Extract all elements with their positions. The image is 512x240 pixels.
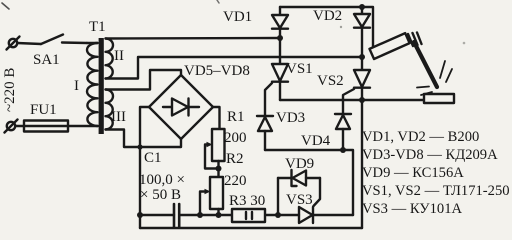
wire: R1 wiper (rheostat tap) [205,145,219,169]
wire: R2 wiper to bottom wire [200,192,207,216]
wire: VD1 cathode down to VS1 anode [279,29,281,64]
terminal X1 (top input clamp) [9,39,17,47]
wire: VD2 cathode down to VS2 anode [361,28,363,70]
wire: winding III bottom to y147 line [106,130,182,148]
wire: VD2 anode lead [361,7,363,14]
svg-text:R2: R2 [226,151,244,167]
wire: R2 bottom lead [217,209,219,215]
node: left drop / y147 junction [137,144,142,149]
node: rail / VS2 cathode junction [359,97,365,103]
svg-text:VS2: VS2 [317,73,344,89]
wire: VS1 gate lead [265,83,272,116]
node: VD9/VS3/R3 junction [275,212,281,218]
svg-text:VD9 — КС156А: VD9 — КС156А [362,165,464,181]
wire: VD4 anode lead [342,129,344,150]
svg-text:VD3: VD3 [276,110,305,126]
node: R2 bottom junction [216,212,222,218]
wire: VD9 cathode down to R3 node [277,178,279,215]
resistor R2 (variable) [210,177,223,209]
svg-text:FU1: FU1 [30,102,57,118]
svg-text:II: II [114,48,124,64]
transformer winding I (primary) [87,43,98,126]
wire: VD9 anode down to VS3 gate [314,178,321,206]
svg-text:VS1, VS2 — ТЛ171-250: VS1, VS2 — ТЛ171-250 [362,183,510,199]
svg-text:× 50 В: × 50 В [140,187,181,203]
transformer T1 core [99,38,104,134]
wire: bridge left corner down the common left drop [140,107,149,228]
scan speck top edge [217,0,219,3]
electrode [414,42,437,87]
wire: VS1 cathode to lower rail [279,82,281,100]
scan speck mid top [340,26,342,28]
svg-text:VS3 — КУ101А: VS3 — КУ101А [362,201,463,217]
svg-text:VD1, VD2 — В200: VD1, VD2 — В200 [362,129,479,145]
svg-text:VD5–VD8: VD5–VD8 [184,63,250,79]
thyristor VS2 [354,70,370,87]
holder jaw hatch [408,34,413,46]
node: left drop / bottom wire junction [137,212,143,218]
svg-text:R3 30: R3 30 [229,193,265,209]
resistor R3 [232,209,265,222]
wire X1 to SA1 [17,43,41,44]
svg-text:T1: T1 [89,19,106,35]
svg-text:VD4: VD4 [301,133,331,149]
wire: VD1 anode lead [279,7,281,15]
diode VD2 [354,14,370,27]
svg-text:200: 200 [224,130,247,146]
node: VD4 anode junction [340,147,346,153]
svg-text:SA1: SA1 [33,52,60,68]
electrode holder [370,33,410,59]
wire: winding II top to VD1 cathode node [106,37,281,40]
wire: common return (rail down to bottom bus) [361,100,363,228]
wire: R1 bottom to R2 top [217,161,219,177]
svg-text:C1: C1 [144,150,162,166]
node: top rail / VD2 junction [359,4,365,10]
wire: winding II bottom to VS2 anode node [106,57,363,79]
wire: VS2 cathode to lower rail [361,88,363,100]
wire: bottom control line (C1/R2/R3/VS3) [140,214,174,216]
scan speck top-left [2,3,9,9]
scan speck right [463,42,466,45]
wire: VD3 anode to gate-feed line [264,131,266,150]
svg-text:VD1: VD1 [223,9,252,25]
wire: bottom bus [140,227,362,229]
transformer winding III (control secondary) [106,90,113,130]
arc sparks [440,61,445,78]
svg-text:~220 В: ~220 В [2,68,18,112]
diode VD4 [335,113,351,115]
workpiece [424,94,454,103]
terminal X2 (bottom input clamp) [7,122,15,130]
thyristor VS1 [272,64,288,81]
svg-text:VS1: VS1 [286,61,313,77]
svg-text:III: III [111,109,126,125]
node: R2 wiper junction [197,212,203,218]
svg-text:VD2: VD2 [313,8,342,24]
svg-text:VD3-VD8 — КД209А: VD3-VD8 — КД209А [362,147,498,163]
svg-text:R1: R1 [227,109,245,125]
wire: VS2 gate lead (crosses rail, no junction) [343,89,354,114]
wire: top rail (VD1/VD2 anodes to electrode holder) [280,7,373,55]
resistor R1 [212,129,225,161]
svg-text:I: I [74,78,79,94]
wire: gate-feed line (VD3/VD4 to VS3 loop) [265,150,353,215]
wire: winding III top to bridge AC input [106,70,182,90]
node: VD2-VS2 midpoint junction [359,54,365,60]
node: VD1 cathode / winding II junction [277,35,283,41]
parts list [362,129,510,217]
transformer winding II (welding secondary) [106,39,114,79]
diode VD1 [272,15,288,28]
wire: bridge plus output to R1 [213,107,220,129]
capacitor C1 [173,204,176,227]
diode VD3 [257,115,273,117]
wire: lower rail to workpiece [280,99,424,101]
fuse FU1 [15,125,98,127]
svg-text:VS3: VS3 [286,192,313,208]
node: R1/R2 junction [216,166,222,172]
svg-text:VD9: VD9 [285,156,314,172]
svg-text:220: 220 [224,173,247,189]
switch SA1 [41,35,63,45]
bridge rectifier VD5-VD8 [149,75,213,139]
svg-text:100,0 ×: 100,0 × [139,172,185,188]
